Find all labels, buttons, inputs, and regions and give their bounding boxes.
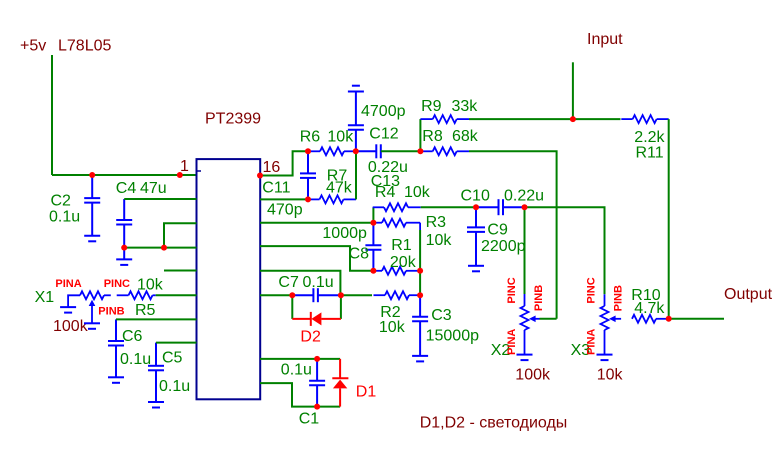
resistor R8 (420, 128, 478, 155)
wire input drop (572, 62, 574, 119)
svg-text:1000p: 1000p (322, 225, 367, 242)
resistor R5 (117, 277, 164, 320)
node pin 16 (257, 173, 263, 179)
svg-text:0.1u: 0.1u (49, 209, 80, 226)
svg-text:C8: C8 (349, 246, 370, 263)
node pin 1 (177, 172, 183, 178)
svg-text:0.22u: 0.22u (504, 187, 544, 204)
svg-text:R3: R3 (426, 214, 447, 231)
svg-text:20k: 20k (390, 254, 417, 271)
ground (108, 377, 124, 383)
ground (60, 307, 76, 313)
wire pin 9 loop to C1 bottom (260, 383, 340, 407)
svg-text:R11: R11 (636, 144, 664, 161)
node C8 bottom (370, 268, 376, 274)
node C2 tap (89, 172, 95, 178)
potentiometer X1 (35, 289, 111, 335)
svg-text:R1: R1 (391, 237, 412, 254)
wire R5 to pin 6 (156, 294, 197, 296)
potentiometer X2 (491, 294, 551, 383)
resistor R1 (373, 237, 420, 275)
node R6 left (305, 148, 311, 154)
svg-text:100k: 100k (515, 366, 551, 383)
node C1 bottom (314, 404, 320, 410)
svg-text:PINB: PINB (533, 285, 545, 311)
resistor R3 (373, 214, 452, 249)
svg-text:R6: R6 (300, 129, 321, 146)
pin label PINA X2 (506, 329, 518, 355)
svg-text:0.1u: 0.1u (120, 351, 151, 368)
svg-text:C11: C11 (262, 180, 290, 197)
wire X2 wiper to R8 drop (540, 318, 557, 320)
svg-text:47k: 47k (326, 180, 353, 197)
node output junction (666, 316, 672, 322)
svg-text:10k: 10k (426, 232, 453, 249)
pin label PINB X3 (613, 285, 625, 311)
svg-text:10k: 10k (404, 184, 431, 201)
svg-text:D1: D1 (356, 383, 377, 400)
wire pin 14 rail (260, 222, 373, 224)
wire output (669, 318, 724, 320)
svg-text:X1: X1 (35, 289, 55, 306)
svg-text:C10: C10 (461, 187, 490, 204)
svg-text:10k: 10k (137, 277, 164, 294)
diode D1 (332, 359, 376, 407)
resistor R11 (621, 115, 668, 161)
wire D2 right branch (340, 295, 342, 319)
pin label PINC X2 (506, 277, 518, 303)
svg-text:100k: 100k (53, 318, 89, 335)
node R3 left (370, 220, 376, 226)
wire pin 16 stub (260, 151, 308, 175)
wire C4 ground lead (123, 248, 125, 260)
IC U1 PT2399 (197, 110, 262, 399)
wire D2 left branch (291, 295, 293, 319)
node R1 right (417, 268, 423, 274)
capacitor C9 (467, 207, 526, 266)
svg-text:C1: C1 (299, 411, 320, 428)
wire pin 11 to C7 right (260, 271, 340, 295)
svg-text:R5: R5 (135, 302, 156, 319)
capacitor C4 (116, 180, 167, 248)
svg-text:C2: C2 (51, 193, 72, 210)
svg-text:PINC: PINC (506, 277, 518, 303)
svg-text:C12: C12 (369, 125, 398, 142)
node Output label (724, 286, 773, 303)
svg-text:PINC: PINC (104, 278, 130, 290)
capacitor C5 (148, 343, 190, 402)
svg-text:10k: 10k (327, 129, 354, 146)
wire X2 top drop (524, 207, 526, 294)
pin label PINC (104, 278, 130, 290)
capacitor C13 (356, 144, 408, 190)
svg-text:2.2k: 2.2k (634, 129, 665, 146)
svg-text:D1,D2 - светодиоды: D1,D2 - светодиоды (420, 415, 568, 432)
svg-text:0.1u: 0.1u (281, 361, 312, 378)
wire R7 right up (355, 151, 357, 199)
ground (468, 266, 484, 272)
capacitor C2 (49, 175, 100, 236)
svg-text:C3: C3 (431, 307, 452, 324)
pin 1 label (180, 158, 189, 175)
wire pin 12 to C7 (260, 294, 292, 296)
capacitor C11 (262, 151, 316, 218)
node input junction (570, 116, 576, 122)
wire R9 left corner (419, 119, 421, 151)
capacitor C6 (108, 319, 151, 377)
wire C5 to pin 8 (156, 342, 197, 344)
ground (84, 323, 100, 329)
ground (116, 259, 132, 265)
resistor R10 (631, 287, 668, 323)
capacitor C12 (348, 92, 406, 152)
svg-text:33k: 33k (452, 98, 479, 115)
svg-text:+5v: +5v (20, 38, 46, 55)
wire pin 3 jog (164, 223, 197, 247)
pin label PINB (98, 306, 124, 318)
resistor R4 (373, 184, 431, 223)
pin label PINB X2 (533, 285, 545, 311)
svg-text:R4: R4 (375, 184, 396, 201)
ground (148, 402, 164, 408)
node C1 top (314, 356, 320, 362)
svg-text:PINC: PINC (586, 277, 598, 303)
wire pin 5 stub (164, 270, 197, 272)
pin label PINC X3 (586, 277, 598, 303)
wire pin 15 to C11 bottom (260, 198, 308, 200)
svg-text:Input: Input (587, 31, 623, 48)
svg-text:C9: C9 (487, 222, 508, 239)
pin 16 label (263, 159, 281, 176)
svg-text:4.7k: 4.7k (634, 300, 665, 317)
node C10 left (473, 204, 479, 210)
capacitor C8 (322, 223, 381, 271)
ground (412, 356, 428, 362)
wire pin 11 to C1 top (260, 358, 340, 360)
wire C13 to R8 junction (381, 150, 421, 152)
diode D2 (292, 312, 341, 346)
node D1 D2 note (420, 415, 568, 432)
capacitor C10 (461, 187, 545, 215)
wire R9 to input junction (469, 118, 621, 120)
pin label PINA (55, 278, 81, 290)
svg-text:16: 16 (263, 159, 281, 176)
ground (84, 236, 100, 242)
resistor R6 (300, 129, 356, 156)
node C4 bottom (121, 245, 127, 251)
wire R11 down to output node (668, 119, 670, 319)
node R2 right (417, 292, 423, 298)
svg-text:C6: C6 (122, 328, 143, 345)
svg-text:C5: C5 (162, 350, 183, 367)
svg-text:2200p: 2200p (481, 238, 526, 255)
potentiometer X3 (571, 294, 624, 383)
svg-text:R9: R9 (421, 98, 442, 115)
node Input label (587, 31, 623, 48)
wire C7 to R2 (341, 294, 372, 296)
svg-text:0.1u: 0.1u (303, 274, 334, 291)
svg-text:PINB: PINB (98, 306, 124, 318)
node R6 right (353, 148, 359, 154)
svg-text:10k: 10k (379, 319, 406, 336)
node C11 bottom (305, 196, 311, 202)
wire C4 top to pin 2 (124, 198, 196, 200)
capacitor C3 (412, 295, 479, 356)
resistor R2 (374, 291, 421, 336)
wire R3 down R1 R2 vertical (419, 223, 421, 296)
wire C10 right to X3 drop (525, 207, 605, 294)
svg-text:R8: R8 (422, 128, 443, 145)
node C10 right (522, 204, 528, 210)
svg-text:PT2399: PT2399 (205, 110, 261, 127)
node C7 left (289, 292, 295, 298)
svg-text:68k: 68k (452, 128, 479, 145)
wire left rail pin 4 (124, 247, 196, 249)
svg-text:PINA: PINA (55, 278, 81, 290)
ground (517, 355, 533, 361)
capacitor C1 (281, 359, 325, 428)
wire C6 to pin 7 (116, 318, 197, 320)
svg-text:PINA: PINA (506, 329, 518, 355)
pin label PINA X3 (586, 329, 598, 355)
ground (597, 355, 613, 361)
resistor R9 (420, 98, 478, 123)
svg-text:15000p: 15000p (426, 328, 479, 345)
svg-text:PINB: PINB (613, 285, 625, 311)
wire +5v rail to pin 1 (52, 174, 197, 176)
wire R8 right to X2 wiper drop (469, 151, 557, 318)
wire +5v vertical (51, 55, 53, 175)
wire pin 13 to C8 bottom (260, 246, 373, 271)
node rail joint (161, 245, 167, 251)
svg-text:Output: Output (724, 286, 773, 303)
wire R4 to C10 (421, 206, 476, 208)
ground inverted (348, 86, 364, 92)
svg-text:470p: 470p (267, 201, 303, 218)
node C7 right (338, 292, 344, 298)
svg-text:PINA: PINA (586, 329, 598, 355)
resistor R7 (308, 168, 356, 204)
svg-text:D2: D2 (300, 329, 321, 346)
svg-text:4700p: 4700p (361, 103, 406, 120)
svg-text:0.1u: 0.1u (159, 378, 190, 395)
svg-text:C4: C4 (116, 180, 137, 197)
capacitor C7 (278, 274, 341, 302)
svg-text:L78L05: L78L05 (58, 38, 111, 55)
node C13 right (417, 148, 423, 154)
node +5v label (20, 38, 111, 55)
svg-text:47u: 47u (140, 180, 167, 197)
svg-text:10k: 10k (597, 366, 624, 383)
svg-text:C7: C7 (278, 274, 299, 291)
